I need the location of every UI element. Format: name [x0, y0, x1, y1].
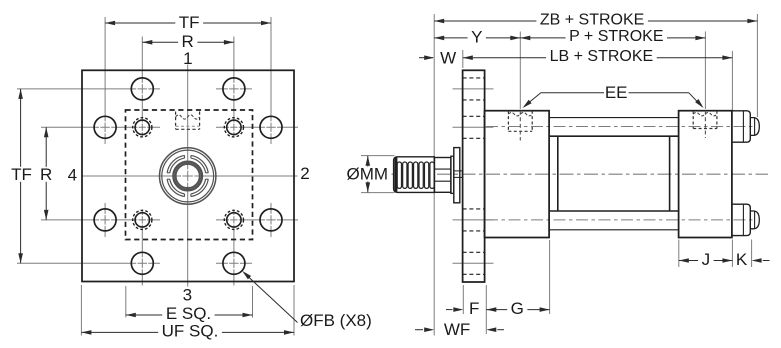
svg-text:ZB + STROKE: ZB + STROKE [540, 11, 644, 28]
svg-text:2: 2 [300, 164, 309, 183]
svg-text:ØMM: ØMM [347, 165, 389, 184]
svg-text:Y: Y [471, 28, 482, 47]
svg-text:ØFB (X8): ØFB (X8) [300, 311, 372, 330]
svg-text:R: R [40, 165, 52, 184]
svg-text:UF SQ.: UF SQ. [162, 322, 219, 341]
svg-text:LB + STROKE: LB + STROKE [550, 48, 654, 65]
svg-text:G: G [511, 299, 524, 318]
svg-text:TF: TF [11, 165, 32, 184]
svg-text:EE: EE [605, 83, 628, 102]
svg-text:K: K [736, 250, 748, 269]
svg-text:4: 4 [68, 166, 77, 185]
svg-text:1: 1 [183, 49, 192, 68]
svg-text:WF: WF [444, 320, 470, 339]
svg-text:W: W [440, 49, 456, 68]
svg-text:TF: TF [179, 13, 200, 32]
svg-text:E SQ.: E SQ. [166, 304, 211, 323]
svg-text:P + STROKE: P + STROKE [569, 28, 663, 45]
svg-text:F: F [469, 299, 479, 318]
svg-text:J: J [702, 250, 711, 269]
svg-text:3: 3 [183, 286, 192, 305]
